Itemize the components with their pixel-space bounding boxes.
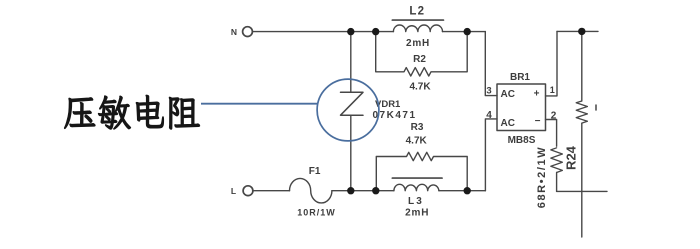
wire corner down to pin3 <box>485 32 497 96</box>
resistor R3 branch loop <box>376 152 467 190</box>
fuse F1 <box>290 178 332 203</box>
varistor VDR1 Z symbol <box>341 92 364 115</box>
inductor L3 coil <box>394 184 439 190</box>
svg-text:2: 2 <box>551 110 557 121</box>
svg-text:R24: R24 <box>564 145 579 170</box>
junction node bottom-3 <box>464 187 471 194</box>
svg-text:2mH: 2mH <box>405 208 429 219</box>
junction node top-2 <box>372 28 379 35</box>
resistor right zigzag <box>576 101 587 123</box>
svg-text:10R/1W: 10R/1W <box>297 207 336 217</box>
svg-text:68R•2/1W: 68R•2/1W <box>536 146 548 209</box>
svg-text:4.7K: 4.7K <box>406 136 428 147</box>
svg-text:MB8S: MB8S <box>508 135 536 146</box>
svg-text:L2: L2 <box>409 5 425 17</box>
svg-text:4.7K: 4.7K <box>409 82 431 93</box>
svg-text:AC: AC <box>501 118 515 129</box>
inductor L2 core bar <box>392 19 443 21</box>
junction node bottom-1 <box>347 187 354 194</box>
bridge BR1 box <box>497 84 546 131</box>
wire L3 to corner <box>439 190 486 192</box>
svg-text:3: 3 <box>486 86 491 97</box>
resistor R2 branch loop <box>376 32 468 76</box>
junction node top-right <box>578 28 585 35</box>
wire top rail N to L2 <box>252 31 393 33</box>
svg-text:L3: L3 <box>408 196 424 207</box>
wire pin2 <box>546 120 557 147</box>
partial label tick <box>595 105 597 110</box>
svg-text:R2: R2 <box>413 54 426 65</box>
wire varistor bottom lead <box>350 115 352 191</box>
resistor R24 zigzag <box>551 148 563 173</box>
inductor L3 core bar <box>392 177 442 179</box>
wire varistor top lead <box>350 32 352 93</box>
terminal L circle <box>243 186 253 196</box>
svg-text:1: 1 <box>550 85 555 95</box>
svg-text:L: L <box>231 186 236 196</box>
wire corner up to pin4 <box>485 119 497 191</box>
svg-text:N: N <box>231 27 237 37</box>
inductor L2 coil <box>393 25 442 32</box>
wire pin1 <box>546 31 558 96</box>
svg-text:BR1: BR1 <box>510 72 530 83</box>
svg-text:AC: AC <box>501 89 515 100</box>
annotation text 压敏电阻 <box>64 95 200 129</box>
wire R24 bottom <box>556 173 558 192</box>
callout line <box>201 103 317 105</box>
terminal N circle <box>243 27 253 37</box>
svg-text:R3: R3 <box>411 122 424 133</box>
varistor highlight circle <box>317 79 379 141</box>
wire fuse to L3 <box>332 190 394 192</box>
wire L2 to corner <box>443 31 486 33</box>
svg-text:2mH: 2mH <box>406 38 430 49</box>
svg-text:F1: F1 <box>309 166 321 177</box>
svg-text:−: − <box>535 116 541 127</box>
wire top right rail <box>557 30 598 32</box>
svg-text:+: + <box>534 89 540 100</box>
wire right vertical lower <box>581 123 583 237</box>
wire L to fuse <box>253 190 290 192</box>
junction node top-3 <box>464 28 471 35</box>
wire bottom right rail <box>557 190 607 192</box>
wire right vertical from top dot <box>581 31 583 101</box>
junction node top-1 <box>347 28 354 35</box>
svg-text:4: 4 <box>486 110 492 121</box>
junction node bottom-2 <box>372 187 379 194</box>
